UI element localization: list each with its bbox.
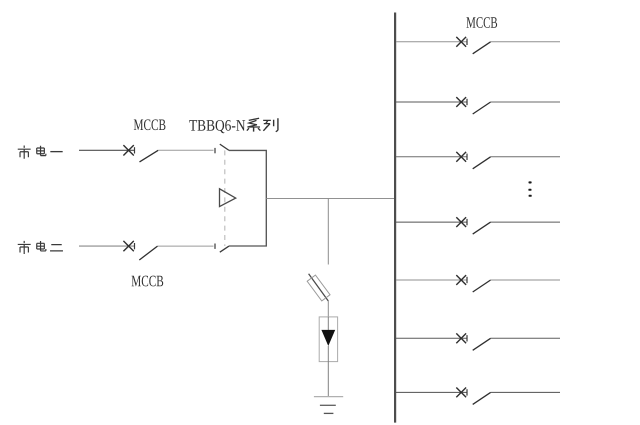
feeder 1 breaker cross [456,37,466,47]
wire: blade to arrester [327,301,329,317]
wire: bus to feeder 1 breaker [396,41,467,43]
wire: feeder 6 out [491,337,560,339]
feeder 4 contact tick [466,219,468,225]
wire: mains1 to breaker QF1 [79,149,135,151]
feeder 4 breaker cross [456,217,466,227]
feeder 1 contact tick [466,39,468,45]
feeder 3 breaker cross [456,152,466,162]
ATS blade input 1 [220,144,229,150]
breaker QF2 contact tick [134,243,136,249]
wire: bus to feeder 6 breaker [396,337,467,339]
breaker QF2 cross (MCCB) [123,241,133,251]
wire: arrester to ground [327,346,329,397]
ATS input contact tick 1 [214,148,216,153]
breaker QF1 cross (MCCB) [123,145,133,155]
feeder 7 breaker cross [456,388,466,398]
wire: bus to feeder 2 breaker [396,101,467,103]
ground symbol bar 3 [324,412,334,414]
wire: mains2 to breaker QF2 [79,245,135,247]
svg-text:MCCB: MCCB [466,15,498,32]
wire: drop to fused disconnect [327,199,329,265]
feeder 7 [396,388,560,405]
wire: feeder 5 out [491,279,560,281]
feeder 7 switch blade [473,392,491,404]
feeder 2 [396,97,560,114]
feeder 1 switch blade [473,42,491,54]
feeder 3 contact tick [466,154,468,160]
switch blade QF1 [140,150,159,162]
wire: feeder 7 out [491,391,560,393]
main bus [394,13,396,423]
wire: bus to feeder 7 breaker [396,391,467,393]
wire: feeder 1 out [491,41,560,43]
wire inside arrester top [327,317,329,331]
feeder 5 [396,275,560,292]
feeder 2 breaker cross [456,97,466,107]
feeder 2 switch blade [473,102,491,114]
label 市电二 (Mains 2) [18,241,63,254]
ground symbol bar 1 [314,396,343,398]
feeder 7 contact tick [466,389,468,395]
feeder 4 [396,217,560,234]
ATS symbol triangle [220,189,236,207]
surge arrester F1 box [319,317,337,362]
arrester arrow (filled) [321,330,335,346]
fused disconnect blade [309,274,329,301]
ATS box U1 (TBBQ6-N) [229,150,266,246]
feeder 1 [396,37,560,54]
switch blade QF2 [139,246,157,260]
wire: bus to feeder 4 breaker [396,221,467,223]
svg-text:MCCB: MCCB [133,117,166,134]
feeder 5 switch blade [473,280,491,292]
ground symbol bar 2 [320,404,336,406]
wire: feeder 4 out [491,221,560,223]
wire: bus to feeder 5 breaker [396,279,467,281]
label 市电一 (Mains 1) [18,146,63,159]
feeder 4 switch blade [473,222,491,234]
feeder 5 breaker cross [456,275,466,285]
ellipsis dots [529,181,532,183]
feeder 5 contact tick [466,277,468,283]
svg-text:MCCB: MCCB [131,273,164,290]
wire: feeder 3 out [491,156,560,158]
feeder 6 breaker cross [456,333,466,343]
feeder 3 switch blade [473,157,491,169]
feeder 6 switch blade [473,338,491,350]
ATS blade input 2 [220,246,229,252]
fuse body rectangle [307,275,330,301]
feeder 3 [396,152,560,169]
ATS input contact tick 2 [214,244,216,249]
wire: ATS output to bus [266,198,394,200]
feeder 2 contact tick [466,99,468,105]
wire: feeder 2 out [491,101,560,103]
feeder 6 [396,333,560,350]
ATS dashed left edge [224,150,226,246]
wire: bus to feeder 3 breaker [396,156,467,158]
svg-text:TBBQ6-N: TBBQ6-N [189,118,246,135]
feeder 6 contact tick [466,335,468,341]
breaker QF1 contact tick [134,147,136,153]
wire: QF2 to ATS input 2 [158,245,214,247]
wire: QF1 to ATS input 1 [158,149,213,151]
